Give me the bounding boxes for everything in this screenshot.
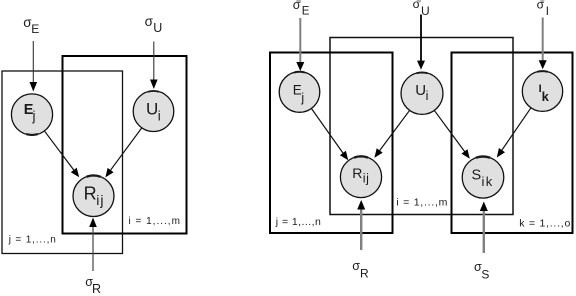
node E_j (right)	[279, 72, 320, 113]
label sigma_R (right)	[352, 259, 369, 280]
wire sigma_E arrow (left)	[30, 41, 38, 92]
wire sigma_S arrow (right, gray stem)	[480, 202, 488, 254]
label sigma_E (right)	[293, 0, 310, 18]
wire sigma_R arrow (right, gray stem)	[357, 200, 365, 250]
svg-text:σ: σ	[352, 259, 360, 273]
svg-text:S: S	[481, 268, 489, 282]
plate j (right diagram)	[270, 53, 393, 234]
label sigma_S (right)	[474, 260, 489, 282]
node E_j (left)	[11, 94, 52, 135]
label sigma_R (left)	[85, 275, 101, 296]
node U_i (right)	[401, 72, 443, 114]
svg-text:i: i	[158, 108, 161, 123]
svg-text:R: R	[92, 282, 101, 296]
node S_ik (right) top edge thick arc artifact	[476, 157, 490, 158]
svg-text:U: U	[415, 82, 426, 99]
svg-text:j = 1,...,n: j = 1,...,n	[275, 216, 322, 228]
node E_j (left) bottom edge thick arc artifact	[26, 133, 38, 136]
node R_ij (left)	[73, 176, 114, 217]
wire I_k to S_ik (right)	[497, 108, 531, 157]
svg-text:ik: ik	[482, 174, 494, 189]
label sigma_U (right)	[413, 0, 430, 18]
wire E_j to R_ij (left)	[45, 131, 79, 177]
node R_ij (right)	[340, 156, 381, 197]
wire U_i to R_ij (right)	[374, 111, 409, 158]
wire sigma_I arrow (right, gray stem)	[539, 18, 547, 70]
label sigma_U (left)	[145, 14, 163, 35]
svg-text:j = 1,...,n: j = 1,...,n	[8, 235, 57, 246]
label sigma_E (left)	[23, 15, 39, 36]
plate i (right diagram)	[330, 38, 513, 215]
svg-text:j: j	[300, 91, 304, 105]
artifact mark above sigma_E (right, image top edge)	[296, 0, 301, 2]
wire sigma_U arrow (left)	[150, 42, 158, 90]
plate i (left diagram)	[63, 56, 187, 234]
wire sigma_R arrow (left)	[89, 218, 97, 272]
wire sigma_U arrow (right, black stem)	[417, 15, 425, 70]
label sigma_I (right)	[537, 0, 549, 18]
svg-text:U: U	[146, 99, 158, 118]
artifact mark above sigma_I (right, image top edge)	[540, 0, 544, 2]
node I_k (right)	[522, 71, 562, 111]
svg-text:j: j	[32, 109, 36, 124]
node E_j (right) top edge arc artifact	[294, 71, 304, 74]
node S_ik (right)	[462, 157, 504, 199]
svg-text:R: R	[84, 183, 97, 203]
artifact mark above sigma_U (right, image top edge)	[417, 0, 421, 2]
node I_k (right) top edge arc artifact	[537, 70, 547, 73]
svg-text:E: E	[302, 6, 310, 18]
svg-text:I: I	[546, 6, 549, 18]
svg-text:k: k	[542, 89, 550, 104]
plate k (right diagram)	[452, 53, 573, 234]
svg-text:ij: ij	[363, 172, 370, 186]
svg-text:E: E	[31, 22, 39, 36]
svg-text:i: i	[426, 89, 429, 103]
svg-text:R: R	[352, 165, 362, 181]
node U_i (right) top edge arc artifact	[417, 71, 428, 74]
svg-text:R: R	[360, 267, 369, 281]
node U_i (left)	[133, 91, 174, 132]
wire sigma_E arrow (right, gray stem)	[296, 18, 304, 71]
node R_ij (right) top edge thick arc artifact	[354, 156, 368, 157]
svg-text:i = 1,...,m: i = 1,...,m	[396, 197, 448, 209]
plate j (left diagram)	[2, 71, 123, 254]
svg-text:U: U	[153, 21, 162, 35]
node U_i (left) top edge arc artifact	[148, 90, 158, 93]
wire U_i to S_ik (right)	[435, 111, 470, 159]
svg-text:S: S	[472, 167, 482, 183]
node R_ij (left) top edge thick arc artifact	[87, 175, 101, 176]
wire U_i to R_ij (left)	[105, 128, 141, 177]
svg-text:ij: ij	[96, 192, 104, 208]
svg-text:k = 1,...,o: k = 1,...,o	[519, 217, 571, 229]
svg-text:U: U	[421, 4, 430, 18]
wire E_j to R_ij (right)	[312, 109, 349, 160]
svg-text:i = 1,...,m: i = 1,...,m	[129, 216, 181, 227]
